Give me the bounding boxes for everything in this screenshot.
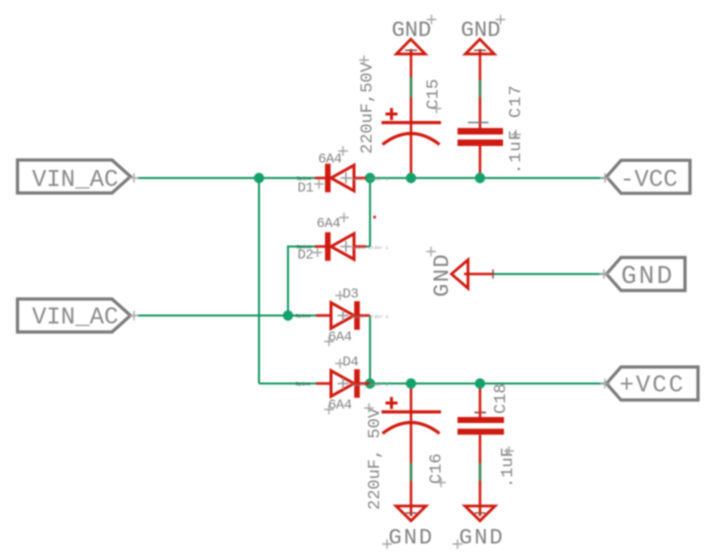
svg-text:D1: D1 [298,181,314,197]
svg-text:GND: GND [430,253,455,297]
svg-text:C16: C16 [428,453,447,484]
svg-text:-VCC: -VCC [620,167,678,194]
svg-text:220uF,50V: 220uF,50V [358,61,377,154]
svg-text:Spice: Spice [296,382,311,388]
svg-text:6A4: 6A4 [328,330,352,346]
svg-text:GND: GND [392,18,432,43]
svg-text:GND: GND [461,18,501,43]
svg-text:6A4: 6A4 [317,216,341,232]
svg-text:Spice: Spice [297,176,312,182]
svg-text:Spice order 2: Spice order 2 [351,382,389,388]
svg-text:D4: D4 [343,355,359,371]
svg-text:Spice order 1: Spice order 1 [351,177,389,183]
svg-text:GND: GND [459,526,505,551]
svg-text:+VCC: +VCC [620,373,686,400]
svg-text:Spice: Spice [297,245,312,251]
svg-text:C18: C18 [492,383,511,414]
svg-text:6A4: 6A4 [328,398,352,414]
svg-text:.1uF C17: .1uF C17 [507,84,526,174]
svg-text:220uF, 50V: 220uF, 50V [366,407,385,510]
svg-text:Spice: Spice [296,314,311,320]
svg-text:VIN_AC: VIN_AC [32,167,118,194]
svg-text:GND: GND [389,526,435,551]
svg-text:C15: C15 [424,79,443,110]
svg-text:VIN_AC: VIN_AC [32,305,118,332]
svg-text:Spice order 1: Spice order 1 [351,245,389,251]
svg-text:D3: D3 [343,287,359,303]
svg-text:6A4: 6A4 [318,152,342,168]
svg-text:Spice order 2: Spice order 2 [351,314,389,320]
svg-text:GND: GND [621,261,674,291]
